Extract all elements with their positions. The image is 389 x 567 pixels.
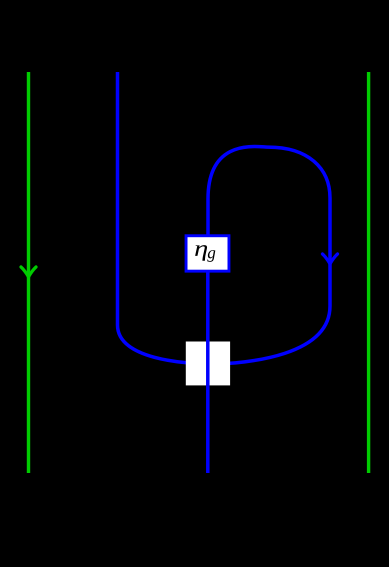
box eta_g (white with blue border) — [186, 236, 229, 271]
wire: right green strand — [367, 72, 370, 473]
arrowhead on blue right leg (downward) — [323, 254, 338, 264]
wire: left green strand — [27, 72, 30, 473]
crossing mask box (white, borderless) — [186, 342, 230, 386]
arrowhead on left green strand (downward) — [21, 267, 36, 277]
wire: blue strand from top-left, cup at bottom, up right side, cap over top, down into eta box — [118, 72, 331, 364]
wire: vertical blue strand through crossing, from eta box to bottom — [206, 270, 210, 473]
label eta_g — [195, 245, 207, 261]
